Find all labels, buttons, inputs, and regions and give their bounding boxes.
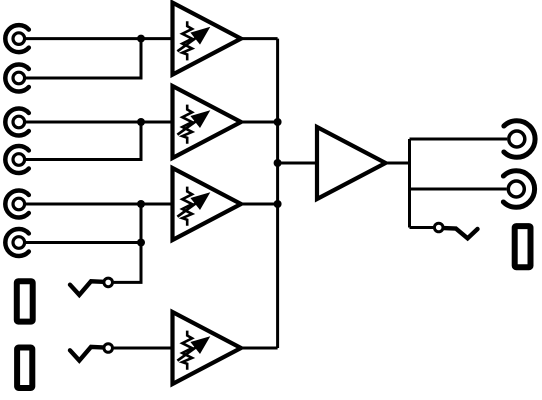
plug P3 bbox=[515, 226, 531, 267]
junction node B pair-2 bbox=[137, 118, 145, 126]
plug P2 bbox=[17, 348, 32, 389]
wire J3 to U2 input bbox=[26, 121, 173, 124]
wire J4 riser to node B bbox=[26, 122, 141, 160]
wire J1 to U1 input bbox=[26, 37, 173, 40]
junction bus tap summing amp bbox=[274, 159, 282, 167]
wire mix bus bbox=[276, 39, 279, 348]
wire to output jack J7 bbox=[410, 138, 508, 141]
wire output split vertical bbox=[408, 139, 411, 228]
wire U3 output to bus bbox=[241, 203, 278, 206]
variable-gain amplifier U4 bbox=[173, 312, 242, 384]
variable-gain amplifier U3 bbox=[173, 168, 242, 240]
summing amplifier U5 bbox=[317, 127, 386, 199]
input jack J4 bbox=[5, 146, 29, 173]
input jack J5 bbox=[5, 191, 29, 218]
wire J6 stub bbox=[26, 241, 141, 244]
variable-gain amplifier U2 bbox=[173, 86, 242, 158]
wire switch SW2 to U4 input bbox=[114, 347, 173, 350]
switch SW1 bbox=[70, 278, 112, 295]
plug P1 bbox=[17, 281, 33, 321]
wire U5 output bbox=[386, 162, 410, 165]
wire U2 output to bus bbox=[241, 121, 278, 124]
wire to switch SW3 bbox=[410, 226, 434, 229]
junction node A pair-1 bbox=[137, 35, 145, 43]
wire riser node C to switch SW1 bbox=[114, 204, 141, 282]
wire U1 output to bus bbox=[241, 37, 278, 40]
variable-gain amplifier U1 bbox=[173, 3, 242, 75]
wire J5 to U3 input bbox=[26, 203, 173, 206]
junction node C pair-3 bbox=[137, 200, 145, 208]
input jack J1 bbox=[5, 25, 29, 52]
junction node D J6 tap bbox=[137, 239, 145, 247]
wire U4 output to bus bbox=[241, 347, 278, 350]
input jack J6 bbox=[5, 229, 29, 256]
wire J2 riser to node A bbox=[26, 39, 141, 78]
wire bus to U5 input bbox=[278, 162, 317, 165]
junction bus tap U2 bbox=[274, 118, 282, 126]
switch SW2 bbox=[70, 344, 112, 361]
output jack J8 bbox=[503, 171, 534, 208]
output jack J7 bbox=[504, 121, 535, 158]
input jack J2 bbox=[5, 65, 29, 92]
wire to output jack J8 bbox=[410, 188, 507, 191]
switch SW3 bbox=[434, 223, 477, 238]
junction bus tap U3 bbox=[274, 200, 282, 208]
input jack J3 bbox=[5, 109, 29, 136]
